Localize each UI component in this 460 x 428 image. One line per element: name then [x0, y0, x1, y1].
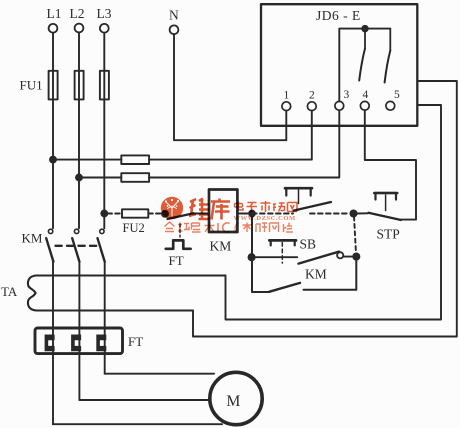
node JD6 internal junction: [362, 26, 368, 32]
terminal N: [170, 25, 179, 34]
node L2 junction: [76, 175, 82, 181]
svg-text:STP: STP: [377, 227, 400, 242]
svg-text:FT: FT: [169, 253, 184, 268]
JD6 internal riser from terminal 3: [339, 29, 390, 102]
node L1 junction: [50, 157, 56, 163]
wire FU2 to FT node dashed: [148, 213, 162, 215]
contactor KM main contact 2 blade: [72, 238, 79, 261]
svg-text:4: 4: [363, 89, 369, 101]
watermark: [161, 197, 297, 232]
coil KM box: [209, 190, 237, 233]
contactor KM main contact 1 hook: [48, 229, 52, 233]
svg-text:5: 5: [394, 89, 400, 101]
node SB left: [249, 254, 255, 260]
thermal relay FT box: [35, 328, 123, 354]
FT heater symbol bump: [166, 240, 191, 248]
watermark row 全球最大IC采购网站: [165, 222, 294, 232]
wire N to terminal 1: [174, 34, 286, 140]
terminal L1: [49, 24, 58, 33]
node branch left top: [249, 211, 255, 217]
wire L1 to fuse row1: [53, 159, 121, 161]
svg-text:L2: L2: [70, 6, 85, 21]
contactor KM main contact 3 blade: [98, 238, 105, 261]
contactor KM main contact 3 hook: [100, 229, 104, 233]
thermal contact FT blade: [168, 213, 194, 219]
wire L2 column upper: [78, 33, 80, 229]
wire L1 column lower: [52, 262, 54, 425]
JD6 terminal 2: [307, 102, 316, 111]
JD6 terminal 1: [282, 102, 291, 111]
wire SB branch left: [252, 256, 298, 258]
watermark chars 电子市场网: [235, 201, 298, 212]
svg-text:FU2: FU2: [123, 221, 145, 235]
contactor KM main contact 1 blade: [46, 238, 53, 261]
JD6 terminal 3: [335, 101, 344, 110]
stop button STP stem: [385, 195, 387, 211]
contactor KM linkage dashes: [56, 245, 98, 247]
svg-text:TA: TA: [1, 284, 18, 299]
svg-text:SB: SB: [300, 237, 317, 252]
wire L2 to motor: [79, 399, 210, 401]
start button SB hook: [337, 252, 343, 258]
wire JD6 right stub lower (inner): [226, 105, 442, 320]
fuse row1 (to JD6 terminal 2): [121, 155, 149, 164]
wire L3 column lower: [104, 262, 106, 374]
fuse FU1 pole 3: [100, 71, 109, 100]
JD6 terminal 4: [360, 101, 369, 110]
fuse FU1 pole 2: [75, 71, 84, 100]
FT heater element 3: [96, 335, 106, 352]
watermark big char 维: [189, 199, 210, 220]
start button SB actuator: [271, 240, 295, 245]
FT heater element 1: [45, 335, 55, 352]
wire control dashed to FU2: [108, 213, 122, 215]
wire L2 to fuse row2: [79, 177, 121, 179]
svg-text:N: N: [169, 8, 179, 23]
wire node B to STP: [357, 212, 369, 214]
svg-text:3: 3: [344, 89, 350, 101]
node SB right: [353, 254, 359, 260]
node FT contact left: [162, 211, 168, 217]
svg-text:KM: KM: [210, 239, 232, 254]
start button SB stem dashed: [281, 243, 283, 264]
JD6-E box: [261, 4, 417, 126]
wire L3 column upper: [103, 33, 105, 229]
svg-text:JD6 - E: JD6 - E: [316, 8, 361, 23]
wire JD6 terminal 4 to STP: [365, 110, 416, 219]
pushbutton1 actuator: [286, 188, 310, 195]
current transformer TA loop top line: [36, 275, 226, 277]
wire L3 to motor: [105, 373, 214, 375]
wire FT to KM coil: [194, 213, 210, 215]
watermark logo circle: [161, 197, 183, 219]
start button SB blade: [299, 252, 340, 264]
svg-text:1: 1: [284, 90, 290, 102]
svg-text:M: M: [227, 393, 241, 410]
wire dashed button1 to node B: [310, 213, 350, 215]
svg-text:KM: KM: [305, 267, 327, 282]
JD6 internal stub 4: [364, 29, 366, 49]
JD6 internal stub 5: [389, 29, 391, 51]
wire L1 column upper: [52, 33, 54, 229]
current transformer TA loop bottom line: [36, 310, 193, 312]
contactor KM main contact 2 hook: [74, 229, 78, 233]
terminal L3: [100, 24, 109, 33]
stop button STP actuator: [376, 193, 397, 200]
terminal L2: [75, 24, 84, 33]
fuse FU1 pole 1: [49, 71, 58, 100]
aux contact KM blade: [270, 283, 301, 292]
svg-text:FU1: FU1: [20, 78, 43, 93]
wire dashed to button1: [252, 213, 293, 215]
svg-text:L3: L3: [97, 6, 112, 21]
node B: [350, 210, 356, 216]
wire branch left rail: [252, 214, 270, 293]
wire KM coil right: [237, 213, 252, 215]
stop button STP blade: [369, 213, 402, 220]
svg-text:WWW.DZSC.COM: WWW.DZSC.COM: [234, 215, 296, 222]
wire L1 to motor: [53, 423, 222, 425]
pushbutton1 stem: [298, 190, 300, 204]
wire L2 column lower: [78, 262, 80, 400]
wire dashed node B down: [354, 217, 356, 254]
wire aux right: [304, 257, 357, 290]
svg-text:2: 2: [309, 90, 315, 102]
FT heater element 2: [71, 335, 81, 352]
wire fuse row1 to terminal 2: [149, 111, 312, 160]
JD6 internal blade to 5: [385, 51, 391, 83]
wire SB right short: [344, 256, 357, 258]
FT bump dashed link: [179, 224, 181, 237]
pushbutton1 blade: [294, 202, 332, 211]
svg-text:KM: KM: [22, 231, 43, 246]
wire JD6 right stub upper (outer): [193, 81, 457, 337]
fuse row2 (to JD6 terminal 3): [121, 173, 149, 182]
JD6 terminal 5: [386, 101, 395, 110]
fuse FU2: [122, 209, 148, 217]
JD6 internal blade to 4: [359, 49, 365, 81]
svg-text:L1: L1: [47, 6, 62, 21]
svg-text:FT: FT: [128, 334, 143, 349]
wire fuse row2 to terminal 3: [149, 111, 339, 178]
node control tap on L3: [101, 211, 107, 217]
watermark big char 库: [211, 199, 230, 220]
motor M circle: [210, 372, 262, 424]
current transformer TA left brace: [28, 276, 37, 311]
